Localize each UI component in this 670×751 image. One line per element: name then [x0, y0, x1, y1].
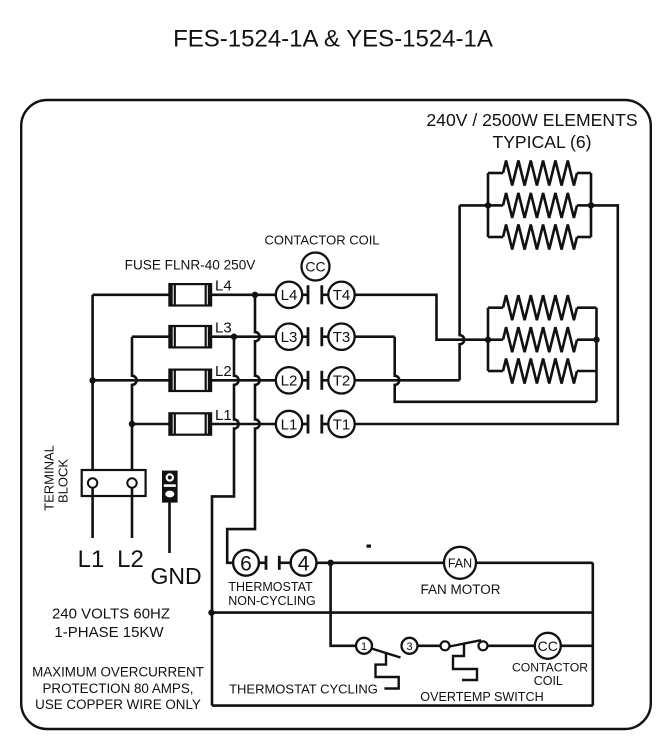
contact terminal T1 [328, 411, 354, 437]
svg-text:L1: L1 [215, 407, 232, 424]
svg-text:L2: L2 [281, 373, 298, 390]
wire CC to right [561, 644, 593, 647]
bank2 left rail [487, 308, 490, 371]
bank2 right rail [595, 308, 598, 402]
wire branch to cycling [331, 563, 356, 646]
svg-text:T2: T2 [333, 373, 351, 390]
svg-text:CONTACTOR: CONTACTOR [512, 661, 588, 675]
wire overtemp to CC [488, 644, 535, 647]
wire T3 stub [355, 335, 395, 338]
wire left feeder B (L3/L1) [132, 337, 137, 479]
element R2 (bank1 middle) [503, 193, 577, 218]
contact terminal T4 [328, 282, 354, 308]
svg-text:FAN: FAN [448, 556, 472, 570]
svg-text:L1: L1 [78, 546, 105, 573]
wire L2 left [93, 379, 170, 382]
bank1 row stub right [577, 172, 591, 175]
svg-text:L2: L2 [117, 546, 144, 573]
svg-text:CC: CC [305, 259, 325, 275]
wire T4 to bank2 left [355, 295, 488, 340]
node fan branch [327, 560, 333, 566]
contact terminal L4 [276, 282, 302, 308]
wire ground lead [168, 502, 171, 553]
svg-text:TYPICAL (6): TYPICAL (6) [492, 132, 591, 152]
thermostat cycling terminal 1 [356, 638, 372, 654]
svg-text:L1: L1 [281, 416, 298, 433]
wire fuse to L2 [211, 379, 276, 382]
svg-text:6: 6 [240, 552, 252, 575]
bank2 row stub left [488, 306, 503, 309]
fuse F2 (FLNR-40) [169, 370, 211, 391]
node bank1 left [485, 202, 491, 208]
svg-text:L3: L3 [215, 320, 232, 337]
wire T3 to bank2 right [395, 337, 597, 402]
thermostat non-cycling terminal 4 [291, 550, 317, 576]
svg-text:240V / 2500W ELEMENTS: 240V / 2500W ELEMENTS [426, 110, 637, 130]
node bank2 left [485, 337, 491, 343]
thermostat cycling blade [372, 649, 401, 658]
wire control rail top [212, 611, 593, 614]
wire fan branch (L3 down) [212, 337, 239, 613]
wire fuse to L4 [211, 293, 276, 296]
svg-text:CONTACTOR COIL: CONTACTOR COIL [264, 232, 379, 247]
thermostat cycling actuator [376, 653, 399, 689]
contactor coil CC (top) [302, 253, 330, 281]
svg-text:3: 3 [406, 641, 412, 653]
bank2 row stub right [577, 338, 597, 341]
thermostat cycling terminal 3 [402, 638, 418, 654]
contact terminal L1 [276, 411, 302, 437]
contact terminal L3 [276, 324, 302, 350]
bank1 right rail [590, 173, 593, 237]
svg-text:L2: L2 [215, 363, 232, 380]
wire L4 left [93, 293, 170, 296]
wire bank1 right to T1 [355, 205, 618, 424]
contact CC-4 bars [302, 293, 308, 296]
wire L1 left [132, 423, 169, 426]
wire control rail bottom [212, 704, 593, 707]
element R5 (bank2 middle) [503, 327, 577, 352]
element R3 (bank1 bottom) [503, 225, 577, 250]
svg-text:USE COPPER WIRE ONLY: USE COPPER WIRE ONLY [35, 697, 201, 712]
contact bars 6-4 [259, 561, 265, 564]
element R6 (bank2 bottom) [503, 359, 577, 384]
node L1 left [129, 421, 135, 427]
contactor coil CC (bottom) [535, 633, 561, 659]
svg-text:THERMOSTAT CYCLING: THERMOSTAT CYCLING [229, 682, 378, 697]
contact terminal T2 [328, 367, 354, 393]
svg-text:T1: T1 [333, 416, 351, 433]
wire L3 left [132, 335, 169, 338]
terminal TB1-1 [88, 478, 97, 487]
wire left feeder A (L4/L2) [91, 295, 94, 479]
svg-text:PROTECTION 80 AMPS,: PROTECTION 80 AMPS, [42, 681, 193, 696]
node L2 left [89, 377, 95, 383]
svg-text:THERMOSTAT: THERMOSTAT [228, 580, 313, 594]
svg-text:OVERTEMP SWITCH: OVERTEMP SWITCH [420, 690, 543, 704]
wire 3 to overtemp [418, 644, 441, 647]
node L3 branch [231, 334, 237, 340]
bank1 row stub left [488, 236, 503, 239]
svg-text:FES-1524-1A & YES-1524-1A: FES-1524-1A & YES-1524-1A [173, 26, 493, 53]
bank2 row stub right [577, 306, 597, 309]
svg-text:BLOCK: BLOCK [56, 459, 71, 503]
svg-text:L4: L4 [215, 278, 232, 295]
element R1 (bank1 top) [503, 161, 577, 186]
wire control left drop [211, 613, 214, 706]
svg-text:1: 1 [361, 641, 367, 653]
element R4 (bank2 top) [503, 295, 577, 320]
bank1 row stub left [488, 172, 503, 175]
svg-text:COIL: COIL [534, 674, 563, 688]
svg-text:T3: T3 [333, 329, 351, 346]
terminal TB1-2 [127, 478, 136, 487]
wire T2 to bank1 left [355, 379, 460, 382]
ground lug [162, 471, 178, 503]
wire fan right [476, 561, 593, 564]
bank1 row stub right [577, 236, 591, 239]
node bank2 right [593, 337, 599, 343]
fan motor FAN [444, 547, 476, 579]
svg-text:FUSE FLNR-40 250V: FUSE FLNR-40 250V [125, 258, 256, 273]
svg-text:1-PHASE 15KW: 1-PHASE 15KW [54, 624, 164, 641]
wire bank1 left drop [460, 205, 465, 380]
outer border box [21, 100, 651, 729]
svg-text:240 VOLTS 60HZ: 240 VOLTS 60HZ [52, 606, 170, 623]
overtemp actuator [453, 643, 477, 680]
wire fan right drop [591, 563, 594, 706]
wire CC branch (L4 to thermostat 6) [227, 295, 259, 563]
fuse F4 (FLNR-40) [169, 284, 211, 305]
svg-text:GND: GND [150, 563, 201, 589]
contact CC-3 bars [302, 335, 308, 338]
node bank1 right [588, 202, 594, 208]
node L4 branch [252, 292, 258, 298]
contact CC-1 bars [302, 423, 308, 426]
wire fuse to L1 [211, 423, 276, 426]
wire L1 supply lead [91, 488, 94, 538]
wire L2 supply lead [131, 488, 134, 538]
overtemp terminal right [479, 641, 488, 650]
node control rail left [208, 609, 214, 615]
svg-text:4: 4 [298, 552, 310, 575]
fuse F3 (FLNR-40) [169, 326, 211, 347]
svg-text:MAXIMUM OVERCURRENT: MAXIMUM OVERCURRENT [32, 665, 204, 680]
bank1 row stub left [488, 204, 503, 207]
overtemp blade [450, 640, 482, 646]
svg-text:L3: L3 [281, 329, 298, 346]
bank2 row stub right [577, 370, 597, 373]
svg-text:L4: L4 [281, 287, 298, 304]
bank2 row stub left [488, 370, 503, 373]
wire fuse to L3 [211, 335, 276, 338]
wire 4 to fan [317, 561, 445, 564]
wire bank1 left stub [460, 204, 488, 207]
fuse F1 (FLNR-40) [169, 413, 211, 434]
svg-text:TERMINAL: TERMINAL [42, 445, 57, 511]
svg-text:NON-CYCLING: NON-CYCLING [228, 594, 316, 608]
overtemp terminal left [441, 641, 450, 650]
bank1 left rail [487, 173, 490, 237]
terminal block TB1 [82, 470, 146, 496]
thermostat non-cycling terminal 6 [233, 550, 259, 576]
bank1 row stub right [577, 204, 591, 207]
svg-text:T4: T4 [333, 287, 351, 304]
svg-text:FAN MOTOR: FAN MOTOR [420, 582, 500, 597]
contact terminal T3 [328, 324, 354, 350]
contact terminal L2 [276, 367, 302, 393]
svg-text:CC: CC [538, 638, 558, 654]
stray mark [367, 545, 372, 548]
contact CC-2 bars [302, 379, 308, 382]
bank2 row stub left [488, 338, 503, 341]
